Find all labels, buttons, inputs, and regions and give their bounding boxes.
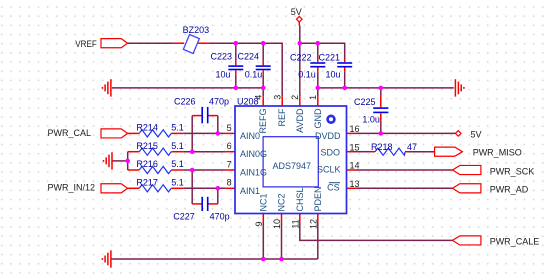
svg-text:C224: C224 <box>238 52 260 62</box>
svg-text:AIN1: AIN1 <box>240 186 260 196</box>
svg-text:10: 10 <box>272 219 282 229</box>
svg-text:PWR_AD: PWR_AD <box>490 185 529 195</box>
svg-text:GND: GND <box>313 108 323 129</box>
svg-text:R217: R217 <box>136 177 158 187</box>
svg-text:R218: R218 <box>371 142 393 152</box>
svg-text:5.1: 5.1 <box>171 141 184 151</box>
svg-text:R216: R216 <box>136 159 158 169</box>
svg-text:6: 6 <box>227 141 232 151</box>
svg-text:14: 14 <box>350 161 360 171</box>
svg-text:C222: C222 <box>290 53 312 63</box>
svg-text:C226: C226 <box>174 96 196 106</box>
svg-text:CS: CS <box>327 183 340 193</box>
svg-text:PWR_SCK: PWR_SCK <box>490 166 535 176</box>
svg-text:11: 11 <box>290 219 300 228</box>
svg-text:470p: 470p <box>209 96 229 106</box>
svg-text:1.0u: 1.0u <box>362 115 380 125</box>
svg-text:CHSL: CHSL <box>295 187 305 211</box>
svg-text:SDO: SDO <box>320 147 340 157</box>
svg-text:13: 13 <box>350 179 360 189</box>
svg-text:R214: R214 <box>136 123 158 133</box>
svg-text:PDEN: PDEN <box>313 186 323 211</box>
svg-text:47: 47 <box>407 142 417 152</box>
svg-text:C225: C225 <box>354 97 376 107</box>
svg-text:SCLK: SCLK <box>317 165 341 175</box>
svg-text:5.1: 5.1 <box>171 159 184 169</box>
svg-text:5.1: 5.1 <box>171 177 184 187</box>
svg-text:R215: R215 <box>136 141 158 151</box>
svg-text:5: 5 <box>227 123 232 133</box>
svg-text:3: 3 <box>272 95 282 100</box>
svg-text:C223: C223 <box>211 52 233 62</box>
svg-text:0.1u: 0.1u <box>298 70 316 80</box>
svg-text:5V: 5V <box>471 129 482 139</box>
svg-text:C221: C221 <box>319 53 341 63</box>
svg-text:7: 7 <box>227 159 232 169</box>
svg-text:PWR_CALE: PWR_CALE <box>490 236 540 246</box>
svg-text:NC1: NC1 <box>258 193 268 211</box>
svg-text:5V: 5V <box>291 7 302 17</box>
svg-text:2: 2 <box>290 95 300 100</box>
svg-text:PWR_MISO: PWR_MISO <box>473 148 522 158</box>
svg-text:9: 9 <box>254 221 264 226</box>
svg-text:5.1: 5.1 <box>171 123 184 133</box>
svg-text:AIN0G: AIN0G <box>240 149 267 159</box>
svg-text:16: 16 <box>350 124 360 134</box>
svg-text:REFG: REFG <box>258 109 268 134</box>
svg-text:8: 8 <box>227 178 232 188</box>
svg-text:AIN0: AIN0 <box>240 131 260 141</box>
svg-text:DVDD: DVDD <box>315 131 341 141</box>
svg-text:0.1u: 0.1u <box>245 70 263 80</box>
svg-text:VREF: VREF <box>75 39 97 49</box>
svg-text:470p: 470p <box>210 211 230 221</box>
svg-text:PWR_CAL: PWR_CAL <box>48 128 92 138</box>
svg-text:10u: 10u <box>216 70 231 80</box>
svg-text:1: 1 <box>308 95 318 100</box>
svg-text:AVDD: AVDD <box>295 108 305 133</box>
svg-text:NC2: NC2 <box>277 193 287 211</box>
svg-text:ADS7947: ADS7947 <box>273 161 312 171</box>
svg-text:10u: 10u <box>326 70 341 80</box>
svg-text:REF: REF <box>277 108 287 127</box>
svg-text:PWR_IN/12: PWR_IN/12 <box>48 183 96 193</box>
svg-text:BZ203: BZ203 <box>183 25 210 35</box>
svg-text:12: 12 <box>308 219 318 229</box>
svg-text:AIN1G: AIN1G <box>240 168 267 178</box>
svg-text:C227: C227 <box>173 211 195 221</box>
svg-text:15: 15 <box>350 142 360 152</box>
svg-text:U208: U208 <box>237 96 259 106</box>
